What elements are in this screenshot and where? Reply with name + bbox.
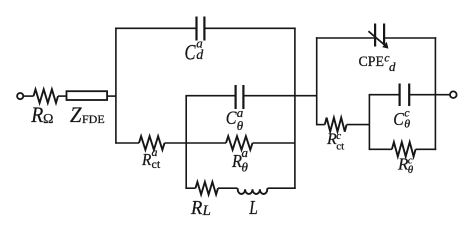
cathode left rail (316, 37, 318, 125)
cathode right rail (434, 37, 436, 150)
capacitor Cth_c (399, 84, 401, 107)
wire Cth_c to right terminal (crosses right rail) (409, 94, 450, 96)
capacitor Cth_a (235, 85, 237, 109)
svg-text:R: R (30, 102, 43, 127)
wire to capacitor Cth_c (369, 94, 400, 96)
wire sub-block to R_th_a (186, 142, 226, 144)
anode left rail (115, 28, 117, 144)
wire R_L to inductor (218, 187, 237, 189)
wire sub-block to R_L (185, 187, 195, 189)
svg-text:R: R (231, 151, 242, 171)
wire sub-block to R_th_c (369, 148, 392, 150)
wire R_ct_c to sub-block (347, 124, 370, 126)
svg-text:a: a (242, 145, 249, 160)
label Cd_a (185, 36, 205, 65)
svg-text:FDE: FDE (82, 112, 105, 126)
wire node to R_ct_a (116, 142, 139, 144)
svg-text:C: C (226, 108, 237, 129)
label Z_FDE (70, 102, 105, 127)
svg-text:L: L (248, 197, 257, 219)
svg-text:θ: θ (404, 117, 410, 131)
wire to CPE (316, 37, 375, 39)
label Cth_c (393, 106, 410, 131)
svg-text:Ω: Ω (43, 112, 53, 127)
capacitor Cd_a (195, 17, 197, 41)
svg-text:ct: ct (336, 141, 344, 153)
wire CPE to right rail (384, 37, 436, 39)
theta-c sub-block left rail (368, 95, 370, 150)
resistor R_th_a (226, 136, 253, 150)
right terminal (450, 91, 457, 98)
inductor L (237, 188, 267, 194)
wire to capacitor Cd_a (115, 27, 196, 29)
wire terminal to R_ohm (23, 95, 33, 97)
resistor R_ct_a (139, 136, 165, 150)
resistor R_ohm (34, 89, 59, 103)
resistor R_th_c (392, 142, 416, 156)
wire R_ct_a to sub-block (165, 142, 187, 144)
label R_ct_a (141, 145, 161, 171)
svg-text:θ: θ (237, 118, 244, 133)
label L (248, 197, 257, 219)
svg-text:L: L (202, 203, 211, 219)
svg-text:θ: θ (408, 164, 414, 176)
svg-text:d: d (196, 48, 204, 63)
label R_ct_c (326, 130, 344, 153)
CPE diagonal arrow (368, 31, 386, 46)
svg-text:R: R (141, 150, 152, 169)
label R_ohm (30, 102, 53, 127)
svg-text:R: R (190, 197, 202, 219)
wire Cd_a to right rail (204, 27, 295, 29)
svg-text:d: d (389, 59, 396, 74)
svg-text:C: C (393, 109, 404, 129)
theta-a sub-block left rail (185, 96, 187, 189)
wire Cth_a to cathode left rail (crosses anode right rail) (243, 95, 316, 97)
resistor R_ct_c (325, 118, 347, 132)
anode right rail (294, 28, 296, 190)
resistor R_L (196, 182, 219, 195)
CPE plates (374, 24, 376, 47)
wire R_ohm to Z_FDE (58, 95, 67, 97)
label R_th_a (231, 145, 248, 175)
label R_L (190, 197, 211, 219)
label CPE_d_c (359, 51, 397, 75)
wire inductor to right rail (268, 187, 296, 189)
label R_th_c (397, 155, 414, 177)
wire node to R_ct_c (317, 124, 325, 126)
wire to capacitor Cth_a (185, 95, 235, 97)
svg-text:θ: θ (242, 160, 249, 175)
wire Z_FDE to node (107, 95, 116, 97)
svg-text:CPE: CPE (359, 54, 385, 70)
svg-text:Z: Z (70, 102, 82, 127)
svg-text:ct: ct (152, 157, 161, 171)
impedance box Z_FDE (67, 91, 108, 100)
wire R_th_c to right rail (416, 148, 437, 150)
left terminal (17, 93, 23, 99)
wire R_th_a to right rail (253, 142, 295, 144)
svg-text:C: C (185, 40, 196, 65)
label Cth_a (226, 105, 244, 133)
